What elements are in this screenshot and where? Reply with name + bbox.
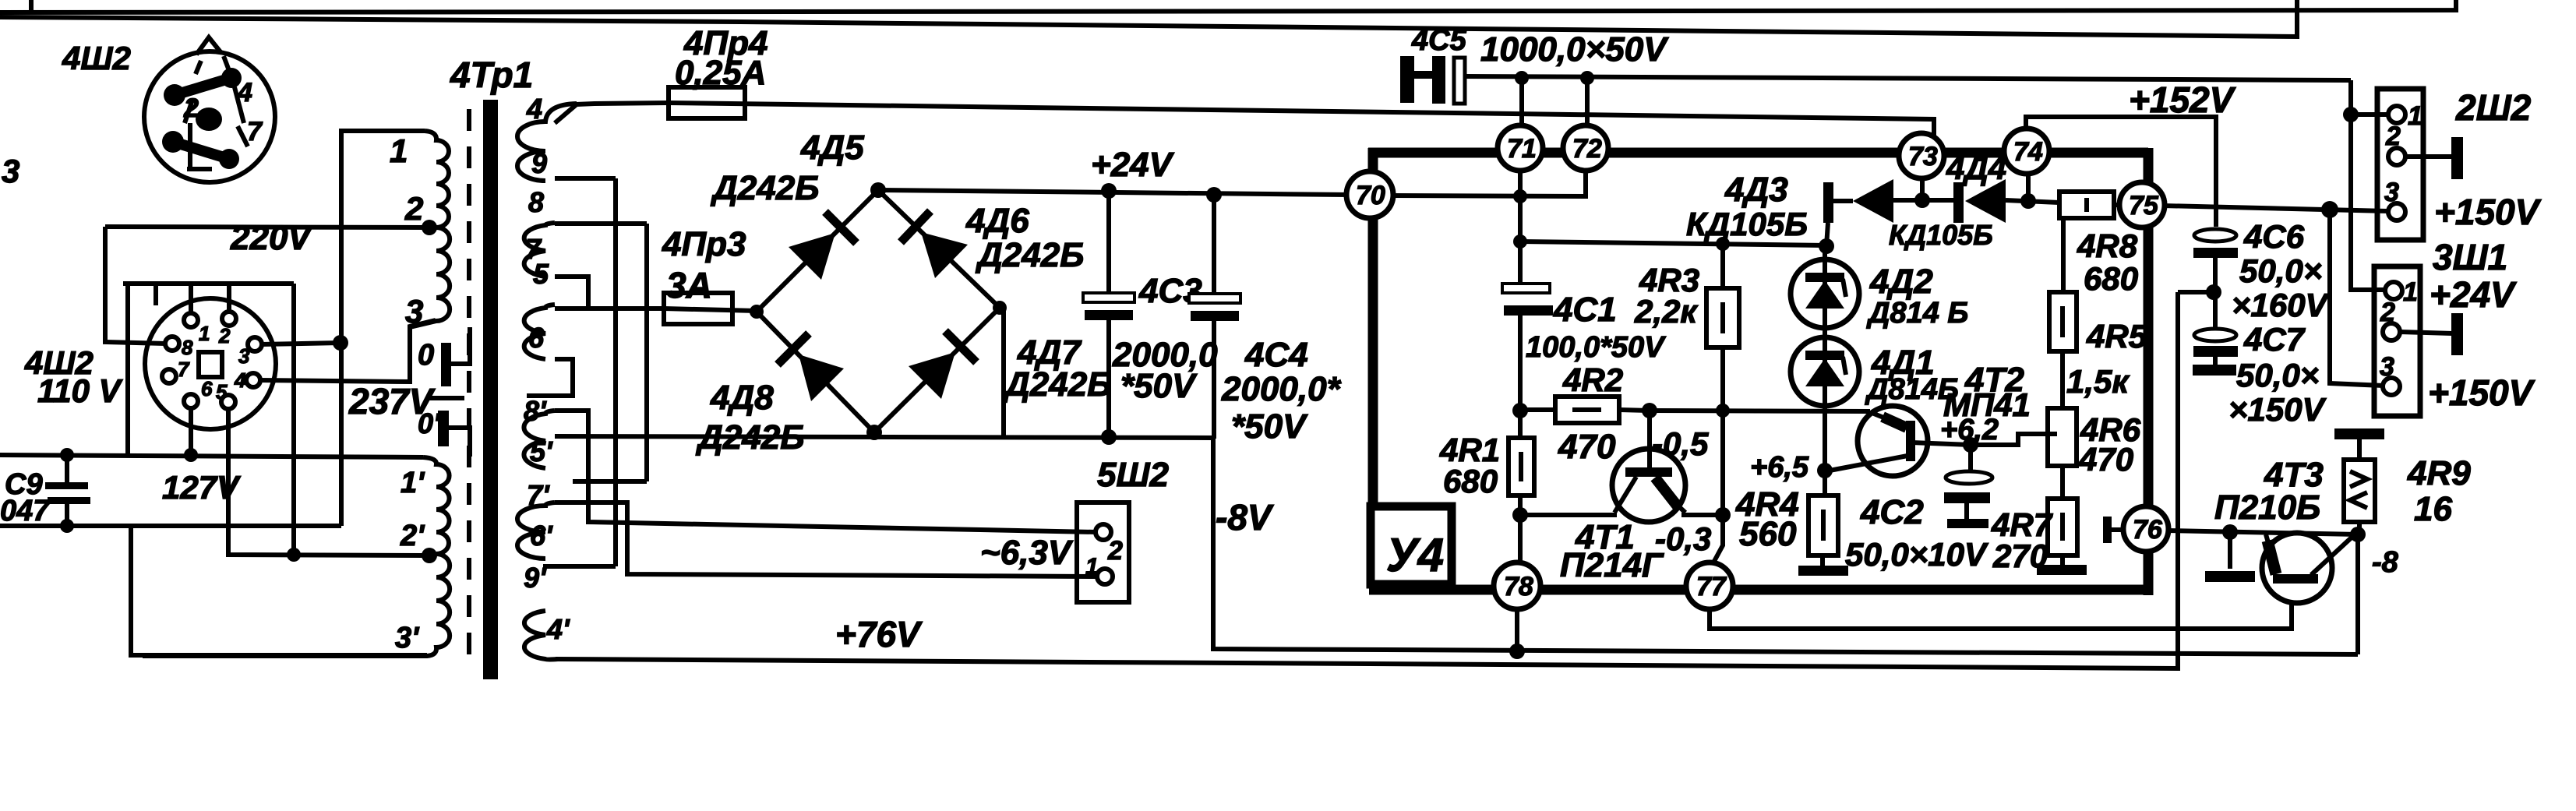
svg-text:Д242Б: Д242Б: [710, 169, 819, 207]
svg-text:5: 5: [216, 380, 228, 404]
resistor 4R5: [2061, 218, 2066, 292]
secondary winding section 8'-5': [524, 411, 555, 468]
wire 3' return: [131, 526, 427, 655]
svg-text:4: 4: [234, 368, 246, 392]
svg-text:3': 3': [395, 622, 420, 654]
svg-text:4Д4: 4Д4: [1946, 150, 2006, 186]
wire +152V from node 74: [2026, 117, 2216, 227]
resistor 4R2: [1512, 403, 1528, 418]
wire pin1 up: [189, 284, 193, 314]
svg-text:-8: -8: [2372, 546, 2399, 579]
connector 4Ш2 110V circle: [145, 298, 276, 429]
svg-text:76: 76: [2133, 515, 2163, 545]
svg-text:*50V: *50V: [1120, 367, 1198, 405]
svg-text:1: 1: [199, 322, 210, 345]
svg-text:77: 77: [1696, 572, 1727, 601]
wire +24V vertical to pins: [2351, 80, 2386, 290]
connector 2Ш2: [2377, 89, 2423, 240]
connector 4Ш2 inner thin strokes: [196, 61, 201, 74]
capacitor 4С1: [1502, 284, 1550, 293]
node 78: [1494, 562, 1540, 609]
svg-text:50,0×: 50,0×: [2236, 357, 2319, 393]
resistor 4R3: [1720, 244, 1725, 288]
svg-text:50,0×: 50,0×: [2239, 252, 2322, 289]
svg-text:4Д6: 4Д6: [965, 202, 1029, 240]
svg-text:680: 680: [2084, 260, 2138, 297]
chassis bar 3Ш1 pin2: [2400, 332, 2453, 333]
svg-text:×160V: ×160V: [2232, 287, 2330, 323]
connector 4Ш2 switch bar B: [173, 142, 229, 159]
capacitor 4С3: [1106, 191, 1111, 296]
svg-text:110 V: 110 V: [37, 372, 123, 409]
svg-text:+150V: +150V: [2428, 372, 2535, 413]
bridge rectifier diamond: [757, 190, 1000, 432]
svg-text:78: 78: [1504, 572, 1533, 601]
diode 4Д6: [921, 232, 968, 278]
wire tap9 to 9': [555, 176, 616, 181]
wire lower horizontal: [0, 524, 341, 528]
svg-text:-0,3: -0,3: [1655, 520, 1711, 557]
svg-text:7: 7: [178, 358, 190, 381]
svg-text:71: 71: [1507, 134, 1537, 164]
wire node 77 to 4Т3 base: [1710, 584, 2292, 629]
svg-text:4R9: 4R9: [2407, 454, 2471, 492]
block У4 thick border right: [2144, 148, 2154, 595]
svg-text:1': 1': [401, 467, 425, 499]
capacitor C9: [65, 455, 69, 482]
wire winding C bottom to 8' bar: [527, 359, 573, 396]
svg-text:3: 3: [2384, 178, 2399, 207]
shield box top wire: [123, 281, 294, 286]
svg-text:7: 7: [247, 117, 263, 146]
svg-text:4Д2: 4Д2: [1869, 263, 1933, 301]
svg-text:2': 2': [400, 520, 425, 552]
svg-text:4: 4: [237, 78, 252, 108]
svg-text:4: 4: [526, 93, 542, 125]
diode 4Д8: [799, 354, 844, 401]
svg-text:4Д8: 4Д8: [710, 379, 774, 417]
svg-text:4R5: 4R5: [2086, 318, 2147, 354]
wire pin2 up: [227, 284, 231, 312]
svg-text:КД105Б: КД105Б: [1686, 206, 1808, 242]
svg-text:560: 560: [1739, 515, 1797, 553]
wire node 76 to 4Т3: [2167, 531, 2358, 534]
svg-text:2000,0*: 2000,0*: [1221, 370, 1342, 408]
svg-text:1,5к: 1,5к: [2066, 363, 2130, 400]
svg-text:4С5: 4С5: [1411, 24, 1467, 57]
wire node 73 stub: [1920, 176, 1925, 200]
junction dots left: [60, 448, 74, 462]
wire vertical x164: [125, 284, 130, 457]
resistor 4R7: [2048, 499, 2077, 555]
wire pin3 to transformer: [261, 343, 341, 344]
diode 4Д7: [909, 352, 955, 399]
connector 4Ш2 top circle: [144, 51, 275, 182]
svg-text:470: 470: [2078, 441, 2133, 478]
diode 4Д5: [789, 233, 835, 280]
svg-text:127V: 127V: [162, 469, 241, 506]
secondary winding section 7'-6': [517, 502, 555, 559]
resistor 4R9: [2334, 428, 2384, 439]
wire node 75 to 2Ш2 pin3: [2163, 206, 2389, 211]
secondary winding section 8-7: [524, 223, 555, 277]
svg-text:×150V: ×150V: [2228, 391, 2327, 428]
wire node 78 below: [1515, 607, 1519, 651]
connector 3Ш1: [2374, 266, 2420, 416]
svg-text:4С6: 4С6: [2243, 218, 2305, 255]
block У4 thick border top: [1368, 148, 2148, 158]
svg-text:+6,5: +6,5: [1750, 451, 1809, 484]
wire +76V from 4': [556, 292, 2178, 668]
svg-text:8: 8: [528, 186, 544, 218]
connector 110V pins: [184, 313, 198, 327]
wire vertical x377: [291, 284, 296, 555]
svg-text:3: 3: [405, 293, 423, 330]
wire tap5' to 5Ш2 pin: [555, 411, 1096, 532]
svg-text:П214Г: П214Г: [1560, 546, 1664, 584]
svg-text:Д242Б: Д242Б: [1002, 365, 1111, 404]
svg-text:КД105Б: КД105Б: [1889, 219, 1993, 251]
wire drops to nodes 71 72: [1519, 78, 1524, 129]
wire node71 vertical down: [1518, 169, 1523, 285]
svg-text:1: 1: [2408, 101, 2422, 131]
wire tap6' to 5Ш2 pin: [555, 502, 1098, 577]
wire vertical x200: [154, 284, 158, 305]
svg-text:2Ш2: 2Ш2: [2455, 87, 2532, 128]
wire pin6 down: [189, 408, 193, 455]
svg-text:+24V: +24V: [2430, 274, 2517, 315]
wire pin5 down to 2': [228, 409, 423, 555]
wire horizontal to zener stack top: [1520, 242, 1826, 245]
wire x377 to 712 junction: [287, 548, 301, 562]
svg-text:4Д3: 4Д3: [1724, 171, 1788, 209]
wire 4Т2 base jog to divider: [1971, 434, 2057, 445]
svg-text:2: 2: [218, 324, 231, 347]
capacitor 4С6: [2194, 229, 2236, 242]
transformer primary winding lower (taps 1',2',3'): [143, 457, 450, 656]
svg-text:+150V: +150V: [2434, 192, 2542, 232]
svg-text:8: 8: [182, 336, 193, 359]
node 72: [1563, 125, 1608, 171]
svg-text:0: 0: [418, 339, 434, 372]
frame tick top-left: [29, 0, 34, 11]
connector 4Ш2 center pin blob: [196, 108, 222, 131]
svg-text:2: 2: [183, 93, 199, 123]
svg-text:П210Б: П210Б: [2214, 488, 2320, 527]
block У4 label box: [1371, 506, 1452, 584]
svg-text:73: 73: [1908, 142, 1938, 171]
svg-text:+24V: +24V: [1091, 146, 1175, 184]
wire line from tap4 through fuse to node 73: [555, 103, 669, 123]
wire tap8 down to 7': [555, 221, 647, 226]
wire left vertical to pin8: [105, 227, 166, 344]
svg-text:2: 2: [2380, 298, 2395, 327]
svg-text:~6,3V: ~6,3V: [980, 534, 1074, 572]
wire tap5 to fuse: [555, 306, 664, 311]
transformer screen dashed line: [467, 109, 471, 666]
resistor 4R1: [1518, 411, 1523, 438]
svg-text:3Ш1: 3Ш1: [2433, 237, 2507, 277]
svg-text:3А: 3А: [666, 265, 712, 305]
svg-text:7': 7': [527, 479, 550, 511]
svg-text:1000,0×50V: 1000,0×50V: [1480, 30, 1669, 69]
svg-text:3: 3: [2, 153, 19, 189]
wire +24V rail: [878, 190, 1350, 195]
svg-text:2: 2: [404, 190, 423, 227]
svg-text:-0,5: -0,5: [1652, 425, 1709, 462]
svg-text:4Д5: 4Д5: [800, 129, 864, 167]
secondary winding section 5-6: [524, 305, 555, 359]
connector 4Ш2 keying notch: [196, 37, 221, 55]
zener 4Д2: [1823, 246, 1827, 262]
wire +24V top line from 4С5 to right: [1465, 76, 2351, 80]
wire bridge right corner down: [1001, 308, 1006, 437]
svg-text:-8V: -8V: [1216, 497, 1274, 538]
svg-text:4Ш2: 4Ш2: [62, 40, 131, 76]
svg-text:8': 8': [524, 395, 547, 427]
transistor 4Т1: [1612, 449, 1685, 522]
svg-text:4С7: 4С7: [2243, 321, 2306, 358]
node +6,5 junction: [1817, 463, 1833, 478]
node 77: [1686, 562, 1733, 609]
ground stub near 4Т3: [2228, 532, 2232, 569]
node 70: [1346, 171, 1393, 218]
svg-text:6: 6: [528, 322, 545, 354]
transformer core bar: [483, 100, 498, 679]
frame line inner top: [0, 0, 2297, 37]
svg-text:2: 2: [1107, 536, 1123, 566]
zener 4Д1: [1791, 337, 1859, 406]
wire 127V long horizontal: [0, 455, 423, 457]
node 71: [1498, 125, 1543, 171]
svg-text:У4: У4: [1386, 529, 1444, 581]
resistor 4R4: [1823, 471, 1827, 495]
svg-text:1: 1: [390, 132, 408, 169]
node 76: [2123, 506, 2168, 552]
secondary winding section 4-9: [517, 104, 577, 181]
svg-text:2,2к: 2,2к: [1634, 293, 1698, 330]
svg-text:4С2: 4С2: [1860, 493, 1924, 531]
wire node70 right with jog up to 72: [1391, 170, 1586, 196]
svg-text:5: 5: [533, 258, 549, 290]
svg-text:2: 2: [2385, 122, 2401, 151]
svg-text:9: 9: [531, 147, 547, 179]
junction caps mid: [2206, 284, 2221, 300]
wire pin4 to tap3: [259, 320, 436, 382]
node 76 terminal bar: [2103, 517, 2112, 543]
svg-text:16: 16: [2414, 490, 2452, 528]
svg-text:0': 0': [418, 407, 441, 439]
svg-text:6: 6: [201, 377, 213, 400]
transistor 4Т2: [1858, 406, 1928, 476]
svg-text:5Ш2: 5Ш2: [1097, 456, 1170, 494]
svg-text:470: 470: [1558, 428, 1616, 466]
resistor 4R6: [2048, 408, 2077, 466]
wire riser x437: [341, 131, 425, 526]
wire 4R9 bottom to -8 run: [2355, 534, 2360, 654]
svg-text:1: 1: [2403, 277, 2418, 307]
svg-text:72: 72: [1572, 134, 1602, 164]
svg-text:+152V: +152V: [2129, 79, 2236, 120]
capacitor 4С7: [2213, 292, 2218, 330]
svg-text:4Тр1: 4Тр1: [450, 55, 533, 95]
wire bridge bottom AC: [555, 436, 1214, 438]
svg-text:Д242Б: Д242Б: [975, 236, 1084, 274]
svg-text:+76V: +76V: [835, 614, 923, 654]
block У4 thick border left: [1368, 148, 1378, 510]
svg-text:50,0×10V: 50,0×10V: [1845, 536, 1988, 573]
block У4 thick border bottom: [1369, 585, 2153, 595]
svg-text:100,0*50V: 100,0*50V: [1526, 331, 1666, 364]
transformer terminal 0 bar: [441, 343, 451, 386]
wire -8V vertical and run: [1213, 438, 2358, 654]
diode 4Д3: [1823, 182, 1833, 223]
wire winding B bottom jog: [555, 277, 588, 309]
svg-text:6': 6': [530, 520, 553, 552]
svg-text:4': 4': [546, 613, 570, 645]
transformer primary winding upper (taps 1,2,3): [410, 131, 450, 327]
chassis bar 2Ш2 pin2: [2405, 154, 2453, 159]
svg-text:1: 1: [1085, 554, 1099, 580]
capacitor 4С4: [1212, 195, 1216, 297]
ground under 4R7: [2037, 565, 2087, 575]
wire 220V horizontal: [105, 227, 428, 227]
node 73: [1899, 133, 1944, 178]
wire node 74 stub: [2026, 171, 2031, 201]
svg-text:4R8: 4R8: [2077, 227, 2138, 264]
svg-text:*50V: *50V: [1231, 407, 1308, 446]
svg-text:3: 3: [2380, 352, 2394, 382]
svg-text:047: 047: [0, 495, 51, 527]
svg-text:Д814 Б: Д814 Б: [1866, 297, 1968, 330]
svg-text:70: 70: [1356, 181, 1385, 210]
svg-text:4С1: 4С1: [1553, 291, 1617, 329]
svg-text:75: 75: [2129, 191, 2159, 220]
frame line outer top: [0, 0, 2456, 12]
svg-text:4С4: 4С4: [1244, 336, 1308, 374]
svg-text:74: 74: [2013, 137, 2043, 167]
svg-text:4R2: 4R2: [1562, 361, 1623, 398]
resistor 4R8: [2059, 192, 2114, 218]
svg-text:220V: 220V: [230, 219, 313, 257]
secondary winding section 9'-4': [524, 611, 558, 660]
diode 4Д4: [1953, 182, 1964, 223]
svg-text:4Пр3: 4Пр3: [662, 225, 746, 263]
svg-text:5': 5': [530, 435, 553, 467]
node 74: [2004, 129, 2049, 174]
capacitor 4С2: [1963, 437, 1978, 453]
connector 110V center square: [199, 352, 222, 377]
transistor 4Т3: [2262, 533, 2332, 603]
connector 4Ш2 switch bar A: [175, 78, 231, 95]
transformer terminal 0' bar: [438, 411, 449, 446]
svg-text:680: 680: [1443, 463, 1498, 499]
svg-text:3: 3: [238, 344, 250, 368]
wire +150V down to 3Ш1 pin3: [2330, 210, 2384, 386]
node 75: [2119, 182, 2165, 227]
ground under 4R4: [1798, 566, 1848, 576]
